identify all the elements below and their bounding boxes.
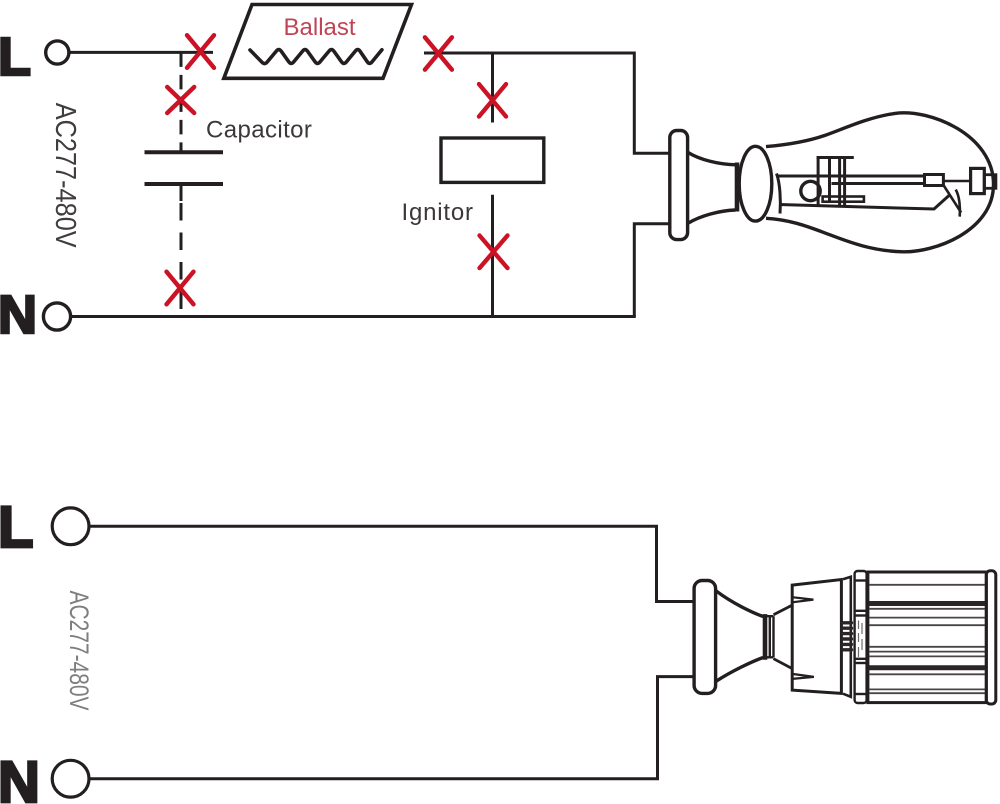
arc tube support frame bbox=[817, 156, 854, 206]
wire N bottom horizontal bbox=[70, 315, 636, 318]
svg-text:N: N bbox=[0, 285, 37, 345]
LED lamp band bbox=[843, 577, 851, 697]
cut mark X1 on L wire bbox=[187, 35, 214, 68]
LED socket trumpet bbox=[716, 591, 763, 682]
arc tube whisker bbox=[956, 190, 960, 217]
svg-text:AC277-480V: AC277-480V bbox=[64, 591, 94, 711]
wire L bottom bbox=[89, 526, 695, 601]
wire socket lower return bbox=[634, 224, 670, 317]
LED lamp cup fin upper bbox=[792, 597, 813, 602]
lamp socket rim bbox=[735, 163, 740, 212]
HID bulb stem curve bbox=[777, 174, 781, 214]
lamp socket trumpet bbox=[688, 152, 736, 223]
ignitor branch upper bbox=[491, 53, 494, 123]
LED lamp corn body grooves bbox=[869, 604, 986, 668]
arc tube electrode circle bbox=[801, 181, 820, 200]
wire after ballast to corner bbox=[424, 53, 670, 153]
LED lamp E39 base bbox=[767, 616, 774, 657]
arc tube lead wire bbox=[943, 180, 970, 183]
cut mark X3 capacitor lower bbox=[167, 272, 194, 305]
lamp socket barrel cup bbox=[739, 146, 772, 221]
LED lamp collar bbox=[855, 571, 867, 703]
LED socket rim bbox=[763, 614, 768, 660]
LED lamp collar marking bbox=[859, 621, 863, 658]
arc tube right stub bbox=[984, 175, 996, 189]
LED lamp cup fin lower bbox=[792, 674, 814, 679]
lamp socket (top) plate bbox=[670, 131, 688, 240]
capacitor C1 dashed branch upper bbox=[180, 52, 183, 152]
arc tube bottom support wire bbox=[779, 196, 949, 210]
svg-text:L: L bbox=[0, 495, 33, 560]
ballast B1 parallelogram bbox=[224, 5, 412, 79]
ignitor U1 box bbox=[441, 138, 544, 182]
terminal L (bottom) bbox=[0, 495, 89, 560]
capacitor C1 plates bbox=[145, 152, 224, 184]
LED lamp corn body outline bbox=[868, 572, 986, 703]
wire L top horizontal bbox=[70, 51, 213, 54]
ignitor branch lower bbox=[491, 195, 494, 317]
LED lamp corn body fins bbox=[869, 585, 986, 693]
LED lamp end cap bbox=[986, 571, 996, 704]
svg-text:N: N bbox=[0, 750, 40, 804]
arc tube right support box bbox=[971, 168, 985, 193]
svg-text:Ignitor: Ignitor bbox=[402, 199, 474, 226]
capacitor C1 dashed branch lower bbox=[180, 184, 183, 317]
cut mark X5 ignitor upper bbox=[479, 84, 506, 116]
arc tube body bbox=[778, 175, 943, 186]
LED socket plate bbox=[694, 581, 716, 694]
svg-text:Ballast: Ballast bbox=[284, 14, 356, 41]
terminal N (bottom) bbox=[0, 750, 89, 804]
svg-text:AC277-480V: AC277-480V bbox=[49, 103, 81, 249]
cut mark X4 after ballast bbox=[425, 37, 452, 69]
LED lamp thread ridges bbox=[843, 623, 852, 650]
LED lamp rear cup bbox=[792, 580, 841, 694]
arc tube bottom bar bbox=[823, 197, 864, 202]
terminal L (top) bbox=[0, 27, 69, 87]
terminal N (top) bbox=[0, 285, 71, 345]
svg-text:L: L bbox=[0, 27, 31, 87]
svg-text:Capacitor: Capacitor bbox=[206, 117, 312, 144]
ballast inductor winding bbox=[250, 50, 382, 64]
HID bulb envelope bbox=[766, 113, 994, 252]
cut mark X2 capacitor upper bbox=[167, 87, 194, 113]
LED lamp neck cone bbox=[774, 605, 793, 668]
wire N bottom return bbox=[90, 677, 695, 779]
arc tube diagonal lead bbox=[943, 185, 961, 213]
cut mark X6 ignitor lower bbox=[480, 236, 508, 269]
